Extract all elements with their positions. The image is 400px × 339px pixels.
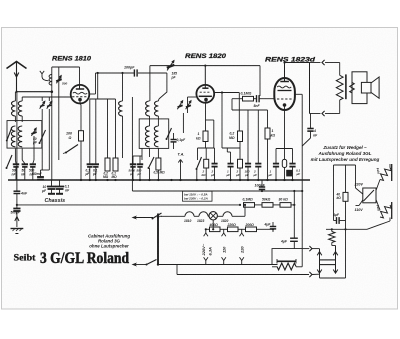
capacitor 50pF b xyxy=(21,164,28,181)
drehko stems xyxy=(41,109,50,170)
drehko trimmer b xyxy=(47,97,52,109)
wire node row2 xyxy=(22,96,71,98)
top bus drop x260 xyxy=(259,66,261,96)
gram switch lever xyxy=(166,128,172,140)
V2 anode wire xyxy=(214,91,239,148)
transformer core xyxy=(345,74,347,99)
bottom bus 2 xyxy=(177,265,320,278)
cabinet note xyxy=(88,234,130,249)
V2 top lead xyxy=(204,65,206,85)
ground arrow xyxy=(15,211,19,227)
wire y73 b xyxy=(138,72,167,74)
wire L-col-2 xyxy=(22,149,25,164)
tube V3 xyxy=(274,78,295,110)
field coil 2 xyxy=(346,200,392,230)
resistor chain 30k xyxy=(273,198,295,208)
coil L2a xyxy=(18,97,22,122)
trap coil L3 xyxy=(49,75,52,86)
heater chain xyxy=(161,212,209,216)
left band box xyxy=(7,121,42,149)
main chassis bus xyxy=(8,179,310,181)
tube label RENS 1823d xyxy=(265,57,316,64)
transformer primary xyxy=(336,63,343,114)
capacitor 0,1uF V3 xyxy=(289,149,300,181)
V3 cathode wire xyxy=(284,105,286,149)
wire rail x294 xyxy=(293,190,295,238)
wire tie y99 xyxy=(90,98,116,100)
wire rail x51 xyxy=(51,67,53,180)
wire tie y156 xyxy=(133,155,142,157)
antenna xyxy=(7,62,27,93)
connector arrow bottom xyxy=(310,111,340,116)
selector return xyxy=(320,229,346,278)
resistor 2uF b xyxy=(235,159,243,180)
antenna tap arrow xyxy=(40,71,49,81)
capacitor 1uF mid xyxy=(226,152,234,180)
resistor 1k V3 xyxy=(265,110,275,180)
resistor 0,2M V2 xyxy=(229,97,243,159)
mains switch xyxy=(146,213,163,266)
resistor chain 0,1M xyxy=(239,198,255,208)
mains input arrow top xyxy=(132,216,154,220)
capacitor 4nF left xyxy=(14,92,28,205)
coil L4 xyxy=(119,72,124,158)
trimmer C50pF xyxy=(31,128,38,144)
wire antenna to V1 grid xyxy=(15,90,53,93)
field coil 1 xyxy=(376,164,392,191)
top supply bus xyxy=(150,66,260,101)
capacitor 10uF chassis xyxy=(41,180,56,194)
switch S3 xyxy=(196,148,202,180)
capacitor 0,1uF b xyxy=(92,99,99,180)
dial lamp xyxy=(209,212,217,220)
capacitor 0,1uF c xyxy=(171,133,187,149)
sub rail mid xyxy=(345,165,347,192)
capacitor 500uF xyxy=(11,205,21,215)
coil L1b xyxy=(11,126,15,147)
V3 screen wire xyxy=(295,94,302,146)
heater labels xyxy=(184,219,229,223)
capacitor 4nF xyxy=(302,114,318,192)
sub rail left xyxy=(333,165,335,218)
capacitor 50mF xyxy=(33,170,44,181)
coil L1a xyxy=(11,92,15,122)
volume pot lever xyxy=(63,145,78,154)
drehko trimmer a xyxy=(40,97,45,109)
capacitor 0,1nF chassis xyxy=(56,180,71,194)
wire L-col-1 xyxy=(14,149,17,164)
resistor chain 50k xyxy=(255,198,274,208)
switch S1c xyxy=(6,155,13,169)
sub top bus xyxy=(334,164,356,166)
coil L6b xyxy=(154,116,158,147)
resistor 220 xyxy=(220,223,238,232)
trap trimmer C xyxy=(56,76,67,86)
switch box 220V xyxy=(354,183,377,212)
note Zusatz xyxy=(311,145,380,162)
wire pot to plug xyxy=(302,246,319,251)
voltage tap 220 xyxy=(240,229,245,264)
switch S1a xyxy=(6,128,12,142)
tap 220V rotated label xyxy=(201,243,213,256)
capacitor 5000pF xyxy=(129,156,137,180)
resistor 0,1M coupling xyxy=(232,92,256,111)
resistor 40k xyxy=(336,192,349,229)
selector rungs xyxy=(320,260,336,265)
wire x183 down xyxy=(182,113,184,133)
brand Seibt xyxy=(14,253,37,264)
resistor zig sub xyxy=(326,228,347,245)
IF box xyxy=(139,119,169,148)
capacitor 100uF xyxy=(255,180,266,192)
V2 cathode branch xyxy=(206,120,214,148)
wire y73 xyxy=(96,72,135,74)
wire tie y148 V3 xyxy=(276,148,293,150)
wire rail x97.7 top xyxy=(97,72,99,99)
potentiometer xyxy=(272,255,302,270)
capacitor 100pF b xyxy=(244,110,251,180)
V1 cathode wire 2 xyxy=(80,141,82,180)
resistor 2k xyxy=(202,148,209,180)
wire x171 down xyxy=(172,149,181,180)
wire box down1 xyxy=(141,148,143,160)
voltage tap 110 xyxy=(222,229,227,264)
capacitor 5nF xyxy=(254,95,264,108)
resistor 1k V2 xyxy=(196,131,208,142)
TA terminal xyxy=(178,153,185,164)
sub rail right xyxy=(355,165,357,188)
capacitor 0,1uF a xyxy=(85,162,94,180)
coupling corner xyxy=(159,73,167,99)
capacitor 4uF psu xyxy=(262,180,276,232)
bus dots xyxy=(80,179,294,181)
trimmer pair xyxy=(177,101,191,109)
resistor 0,5M xyxy=(154,148,166,180)
V1 cathode wire xyxy=(80,104,81,131)
coil L5a xyxy=(146,101,150,116)
wire grid feed xyxy=(52,67,80,85)
speaker cone xyxy=(371,77,379,98)
capacitor 4uF sub xyxy=(332,213,346,224)
resistor 100 Ohm xyxy=(66,131,84,141)
tube label RENS 1820 xyxy=(185,53,226,60)
wire x232 tie xyxy=(232,109,268,111)
bottom bus xyxy=(158,264,278,266)
mains rating box xyxy=(183,191,213,201)
capacitor 50pF a xyxy=(12,163,20,180)
capacitor 2uF a xyxy=(210,148,218,180)
V3 top lead xyxy=(283,61,285,78)
selector right rail xyxy=(333,246,338,274)
switch S1b xyxy=(39,130,46,144)
switch S2 xyxy=(148,148,155,180)
capacitor 1uF V3 xyxy=(268,149,280,181)
bus y205 xyxy=(16,204,240,206)
tube V1 xyxy=(71,85,90,104)
resistor 150 V3 cath xyxy=(282,149,292,181)
resistor 0,2M xyxy=(103,99,110,179)
wire to V3 grid xyxy=(263,98,274,100)
chassis label xyxy=(45,198,66,204)
resistor 400 xyxy=(206,220,220,232)
selector left rail xyxy=(317,249,322,274)
resistor 0,1M xyxy=(112,99,119,179)
wire tie2 y148 xyxy=(222,148,240,152)
capacitor 500pF b xyxy=(137,156,144,180)
wire rail x58.8 xyxy=(58,67,60,160)
title 3 G/GL Roland xyxy=(40,250,129,267)
trimmer 185pF xyxy=(167,61,177,80)
resistor 200 xyxy=(238,223,262,232)
capacitor 258 xyxy=(253,110,262,180)
coil L2b xyxy=(18,126,22,147)
V3 top wire xyxy=(284,62,310,64)
wire rail x302 low xyxy=(301,190,303,249)
wire tie1 y148 xyxy=(198,147,215,149)
mains input arrow bottom xyxy=(132,263,147,267)
wire V3 plate right xyxy=(309,63,311,114)
V1 anode wire xyxy=(89,73,96,94)
tube label RENS 1810 xyxy=(52,56,91,63)
tube V2 xyxy=(196,85,214,103)
wire rail x89.8 xyxy=(89,99,91,163)
wire L-col-3 xyxy=(33,136,34,164)
wire rail x132 xyxy=(131,97,133,191)
rail y191 xyxy=(132,190,302,192)
coil L6a xyxy=(154,99,158,116)
ground symbol xyxy=(11,229,24,234)
coil L5b xyxy=(145,116,149,147)
voltage tap 220V xyxy=(204,228,208,264)
speaker magnet xyxy=(361,82,371,93)
pot box xyxy=(272,249,302,265)
heater arc 3 xyxy=(217,204,246,217)
connector arrow top xyxy=(310,60,340,65)
V2 cathode wire xyxy=(205,103,207,131)
capacitor 100pF xyxy=(124,66,137,77)
speaker frame xyxy=(350,72,367,104)
V2 cathode wire2 xyxy=(205,142,207,149)
V2 grid wire xyxy=(188,97,197,113)
capacitor 500pF xyxy=(29,164,36,181)
capacitor 4uF b xyxy=(280,238,298,248)
